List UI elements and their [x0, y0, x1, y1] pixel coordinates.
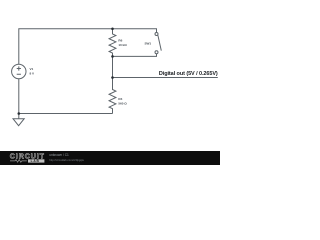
- svg-text:R4: R4: [118, 97, 122, 101]
- svg-text:Digital out (5V / 0.265V): Digital out (5V / 0.265V): [159, 71, 218, 77]
- svg-text:10 kΩ: 10 kΩ: [118, 43, 127, 47]
- svg-text:LAB: LAB: [31, 159, 40, 163]
- svg-text:http://circuitlab.com/c/4lpgqw: http://circuitlab.com/c/4lpgqw: [49, 158, 84, 162]
- svg-text:560 Ω: 560 Ω: [118, 101, 127, 105]
- svg-text:SW1: SW1: [145, 41, 152, 45]
- svg-text:R6: R6: [118, 39, 122, 43]
- svg-text:unknown / C1: unknown / C1: [49, 153, 69, 157]
- svg-text:V1: V1: [30, 67, 34, 71]
